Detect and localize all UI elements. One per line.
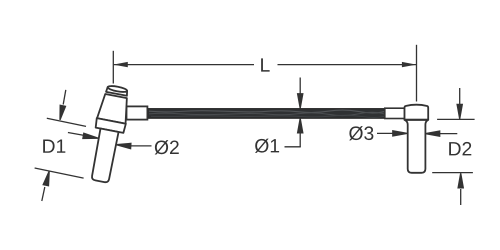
dimension O2: right arrow with leader [116, 143, 151, 148]
left fitting cap [106, 87, 128, 96]
right fitting ferrule (cable entry) [385, 108, 405, 118]
dimension O1: label [255, 139, 279, 153]
dimension L: left extension line [112, 51, 114, 84]
dimension D2: upper arrow [457, 88, 462, 119]
left fitting stem [91, 129, 119, 183]
dimension L: right arrowhead [402, 62, 417, 67]
dimension D1: upper extension line [47, 118, 86, 126]
right fitting stem [405, 120, 429, 173]
dimension O3: left arrow with leader [377, 131, 407, 136]
dimension D2: upper extension line [437, 118, 475, 120]
right fitting head [405, 105, 429, 120]
left fitting flange [95, 118, 126, 133]
dimension D2: lower arrow [458, 173, 463, 205]
dimension D1: lower extension line [35, 168, 84, 178]
dimension D1: label [43, 140, 65, 153]
right fitting head bottom line [405, 119, 429, 121]
dimension O3: label [349, 126, 373, 140]
dimension D2: label [449, 142, 471, 155]
dimension O3: right arrow with leader [425, 131, 457, 136]
dimension O2: left arrow (leader to stem left edge) [68, 133, 99, 139]
dimension O2: label [155, 140, 179, 154]
dimension L: right extension line [416, 45, 418, 102]
dimension O1: upper arrow [298, 78, 303, 109]
left fitting body cone [97, 93, 130, 123]
dimension L: line left segment [114, 64, 254, 66]
dimension L: line right segment [278, 64, 417, 66]
dimension L: left arrowhead [113, 62, 128, 67]
left fitting barrel (horizontal, joins cable) [127, 106, 148, 119]
dimension D2: lower extension line [432, 172, 473, 174]
dimension D1: upper arrow [60, 90, 66, 120]
cable (hatched dark band) [148, 109, 385, 119]
dimension L: label [261, 58, 270, 71]
dimension D1: lower arrow [42, 171, 49, 201]
dimension O1: lower arrow with leader [285, 118, 303, 146]
left elbow fitting (rotated 10deg cw) [85, 84, 132, 184]
